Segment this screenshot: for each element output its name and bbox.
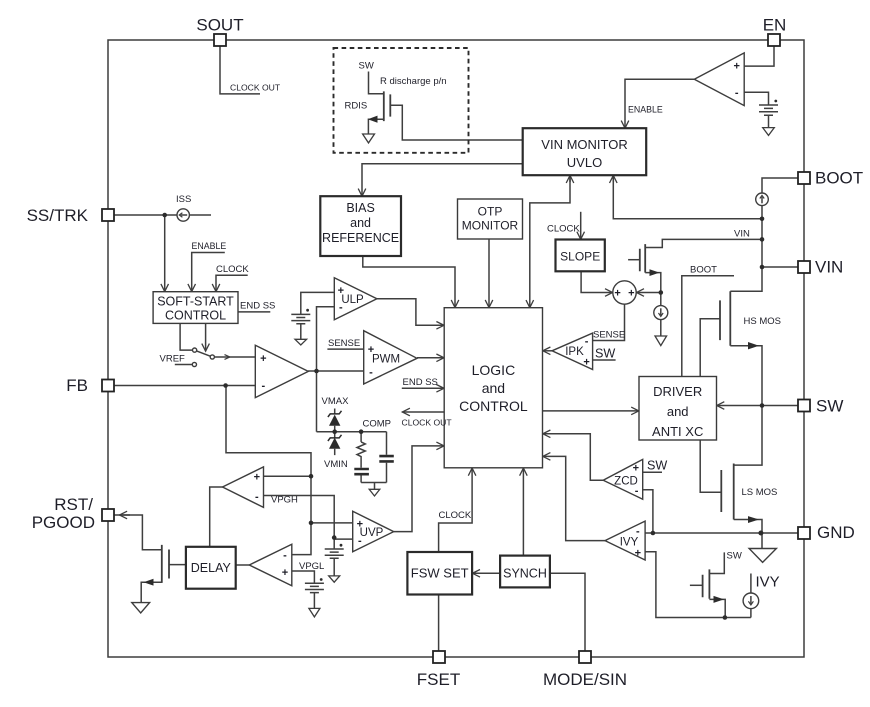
arrow into VIN MONITOR bottom right: [612, 175, 614, 182]
op-amp UVP: [353, 511, 394, 552]
node reference battery junction: [332, 535, 337, 540]
ground RST transistor arrow: [132, 603, 150, 613]
wire VPGH output to DELAY: [210, 487, 223, 547]
node VREF circle: [192, 362, 196, 366]
ground reference battery arrow: [329, 576, 340, 582]
svg-text:RDIS: RDIS: [345, 101, 368, 112]
box BIAS and REFERENCE: [320, 196, 401, 256]
svg-text:PWM: PWM: [372, 354, 400, 366]
transistor RDIS: [384, 91, 391, 121]
svg-text:+: +: [368, 344, 374, 356]
wire VIN MONITOR to VIN rail: [613, 175, 762, 219]
current source IVY: [743, 593, 759, 609]
wire VREF underline: [175, 364, 193, 366]
node LS source GND junction: [758, 531, 763, 536]
wire OTP to LOGIC top: [488, 239, 490, 308]
summing node: [613, 281, 636, 304]
svg-text:MONITOR: MONITOR: [462, 219, 519, 233]
wire VPGH plus tap: [264, 475, 312, 477]
wire LS MOS source to GND line: [734, 520, 762, 534]
arrow on error amp plus wire: [225, 355, 230, 360]
wire HS MOS gate to DRIVER: [700, 319, 720, 377]
wire FB pin to error amp minus: [114, 385, 255, 387]
wire SW node to LS MOS drain: [734, 406, 762, 466]
svg-text:VPGL: VPGL: [299, 561, 324, 572]
node switch circle B: [210, 355, 214, 359]
arrow into VIN MONITOR bottom left: [569, 175, 571, 182]
wire ZCD output to LOGIC: [543, 434, 603, 480]
wire SYNCH to FSW SET: [472, 572, 500, 574]
box DELAY: [186, 547, 236, 589]
svg-text:REFERENCE: REFERENCE: [322, 231, 399, 245]
diode VMIN zener: [328, 432, 342, 455]
svg-text:R discharge p/n: R discharge p/n: [380, 76, 447, 87]
node switch circle A: [193, 348, 197, 352]
op-amp PWM: [364, 331, 417, 384]
svg-text:+: +: [254, 472, 260, 484]
wire CLOCK OUT from LOGIC: [402, 411, 444, 413]
node summing right junction: [659, 290, 664, 295]
transistor IVY sense FET: [703, 569, 710, 598]
arrow HS MOS source: [748, 342, 759, 349]
arrow RDIS source: [368, 116, 378, 123]
node IVY sense junction: [723, 615, 728, 620]
wire MODE/SIN pin to SYNCH: [550, 573, 585, 651]
arrow LS MOS source: [748, 516, 759, 523]
node error amp output junction: [314, 369, 319, 374]
svg-text:-: -: [635, 485, 639, 497]
svg-text:+: +: [628, 288, 634, 300]
svg-text:END SS: END SS: [240, 301, 275, 312]
svg-text:+: +: [633, 463, 639, 475]
wire LOGIC to DRIVER: [543, 410, 639, 412]
wire VIN rail down to HS MOS drain: [730, 219, 762, 291]
svg-text:+: +: [635, 548, 641, 560]
wire ENABLE stub into SOFT-START: [192, 253, 225, 292]
op-amp VPGL: [249, 544, 291, 586]
wire IVY sense FET gate stub: [690, 584, 703, 586]
wire ULP plus to battery: [301, 292, 335, 314]
pin RST/PGOOD: [102, 509, 114, 521]
svg-text:GND: GND: [817, 523, 855, 542]
svg-text:-: -: [283, 550, 287, 562]
svg-text:ULP: ULP: [341, 294, 364, 306]
svg-text:ENABLE: ENABLE: [192, 241, 227, 251]
arrow toward RST pin: [120, 514, 131, 516]
node VIN rail junction: [760, 237, 765, 242]
pin VIN: [798, 261, 810, 273]
node FB junction: [223, 383, 228, 388]
wire RST pin to pass transistor: [114, 515, 162, 550]
wire EN pin to comparator plus: [744, 46, 774, 66]
transistor HS MOS: [720, 291, 730, 345]
svg-text:SS/TRK: SS/TRK: [27, 206, 89, 225]
svg-text:FSET: FSET: [417, 670, 460, 689]
wire SYNCH to LOGIC: [522, 468, 524, 555]
svg-text:-: -: [339, 302, 343, 314]
svg-text:+: +: [260, 353, 266, 365]
wire ZCD minus to GND line: [643, 490, 653, 533]
wire RDIS gate to VIN MONITOR: [390, 105, 522, 140]
box OTP MONITOR: [458, 199, 523, 239]
svg-text:VMIN: VMIN: [324, 459, 348, 470]
svg-text:IVY: IVY: [756, 574, 780, 591]
wire VIN MONITOR to LOGIC top: [530, 175, 570, 308]
pin MODE/SIN: [579, 651, 591, 663]
wire error amp output to PWM minus: [308, 370, 364, 372]
ground slope current source arrow: [655, 336, 667, 346]
wire BIAS to LOGIC top: [363, 256, 455, 308]
op-amp IPK: [552, 333, 593, 369]
wire SLOPE clock stub: [580, 212, 582, 240]
svg-text:SENSE: SENSE: [328, 338, 360, 349]
node COMP junction: [359, 429, 364, 434]
wire SS/TRK to ISS: [114, 214, 211, 216]
svg-text:CLOCK OUT: CLOCK OUT: [230, 83, 281, 93]
wire RDIS source to arrow: [368, 119, 383, 134]
svg-text:-: -: [636, 526, 640, 538]
arrow slope FET source: [650, 269, 660, 276]
svg-text:VIN MONITOR: VIN MONITOR: [541, 137, 627, 152]
svg-text:and: and: [482, 380, 505, 396]
svg-text:+: +: [583, 357, 589, 369]
svg-text:and: and: [350, 216, 371, 230]
svg-text:+: +: [282, 567, 288, 579]
svg-text:UVLO: UVLO: [567, 155, 602, 170]
svg-text:UVP: UVP: [360, 527, 384, 539]
transistor RST pass FET: [162, 545, 169, 583]
wire BIAS to VIN MONITOR: [362, 164, 523, 197]
wire FB chain down to comparators: [226, 386, 311, 555]
wire slope current source leads: [660, 293, 662, 337]
wire ZCD plus SW stub: [643, 471, 662, 473]
op-amp ULP: [334, 278, 377, 320]
op-amp IVY: [605, 521, 645, 560]
wire SOUT clock-out stub: [220, 46, 260, 94]
svg-text:-: -: [369, 367, 373, 379]
node ZCD GND junction: [651, 531, 656, 536]
wire VPGL plus to battery: [292, 571, 315, 583]
svg-text:FSW SET: FSW SET: [411, 566, 469, 581]
pin SW: [798, 400, 810, 412]
svg-text:HS MOS: HS MOS: [744, 316, 781, 327]
wire SW into RDIS drain: [369, 72, 384, 94]
svg-text:BIAS: BIAS: [346, 201, 375, 215]
svg-text:VIN: VIN: [815, 258, 843, 277]
svg-text:RST/: RST/: [54, 495, 93, 514]
wire IPK plus SW stub: [593, 359, 616, 361]
svg-text:EN: EN: [763, 16, 787, 35]
wire BOOT label to DRIVER: [682, 276, 734, 377]
svg-text:SOUT: SOUT: [196, 16, 243, 35]
svg-text:COMP: COMP: [363, 419, 392, 430]
wire IVY current source leads: [750, 574, 752, 618]
current source bootstrap: [756, 193, 769, 206]
wire FSW SET clock to LOGIC: [439, 468, 473, 552]
transistor LS MOS: [721, 464, 733, 520]
svg-text:DELAY: DELAY: [191, 561, 232, 575]
op-amp error amplifier: [255, 345, 308, 397]
svg-text:-: -: [261, 380, 265, 392]
svg-text:IPK: IPK: [565, 346, 584, 358]
battery VPGH UVP reference: [325, 544, 344, 559]
arrow IVY sense FET source: [714, 596, 725, 603]
current source ISS: [177, 209, 189, 221]
BORDER-AND-PINS: [108, 40, 804, 657]
wire SOFT-START output B arrow onto switch: [205, 323, 207, 351]
wire LS MOS gate to DRIVER: [700, 440, 721, 492]
wire slope FET gate stub: [628, 259, 640, 261]
svg-text:BOOT: BOOT: [815, 169, 863, 188]
node UVP plus junction: [309, 521, 314, 526]
wire SLOPE output to summing: [581, 271, 613, 292]
svg-text:CLOCK OUT: CLOCK OUT: [402, 418, 453, 428]
svg-text:ISS: ISS: [176, 194, 191, 205]
capacitor COMP series cap: [354, 469, 369, 474]
svg-text:SW: SW: [727, 551, 742, 562]
wire ULP minus to error amp output column: [317, 307, 335, 432]
node SW junction: [760, 403, 765, 408]
svg-text:OTP: OTP: [478, 205, 503, 219]
pin SOUT: [214, 34, 226, 46]
wire VPGL output to DELAY: [236, 564, 250, 566]
svg-text:-: -: [358, 535, 362, 547]
wire IVY sense FET drain SW stub: [709, 552, 724, 573]
ground COMP network arrow: [369, 489, 380, 496]
svg-text:CLOCK: CLOCK: [547, 224, 580, 235]
wire PWM output to LOGIC: [417, 357, 444, 359]
wire slope FET drain to VIN rail: [645, 239, 762, 247]
svg-text:+: +: [733, 61, 739, 73]
wire RST transistor source to ground: [141, 582, 162, 602]
svg-text:CONTROL: CONTROL: [165, 309, 226, 323]
svg-text:FB: FB: [66, 376, 88, 395]
pin FB: [102, 380, 114, 392]
wire SOFT-START output A to switch: [180, 323, 192, 350]
svg-text:SW: SW: [647, 459, 667, 473]
node bootstrap junction: [760, 217, 765, 222]
svg-text:LOGIC: LOGIC: [472, 362, 516, 378]
box FSW SET: [407, 552, 472, 595]
svg-text:VREF: VREF: [160, 354, 186, 365]
transistor slope sense FET: [640, 244, 645, 273]
capacitor COMP parallel cap: [379, 456, 394, 461]
wire EN comparator minus to battery: [744, 92, 768, 104]
wire FSW SET to FSET pin: [438, 595, 440, 652]
battery VPGL reference: [305, 578, 324, 593]
wire IVY plus to sense node: [645, 552, 751, 618]
wire slope FET source lead: [645, 273, 661, 293]
op-amp ZCD: [603, 459, 643, 499]
wire HS MOS source to SW node: [730, 346, 762, 406]
current source slope: [654, 306, 668, 320]
wire COMP network ground join: [361, 483, 386, 490]
wire switch blade: [196, 351, 210, 357]
wire BOOT pin to bootstrap current source: [762, 178, 798, 219]
wire DELAY to transistor gate: [169, 564, 186, 566]
svg-text:CLOCK: CLOCK: [439, 510, 472, 521]
wire slope FET source to summing: [636, 292, 660, 294]
wire VPGH minus to reference node: [264, 496, 335, 538]
wire UVP plus tap: [311, 522, 353, 524]
svg-text:and: and: [667, 404, 689, 419]
wire IPK minus SENSE from summing: [593, 304, 625, 340]
pin EN: [768, 34, 780, 46]
wire CLOCK stub into SOFT-START: [216, 275, 248, 291]
wire GND line: [645, 532, 798, 534]
battery ULP reference: [291, 309, 310, 345]
ground RDIS arrow: [363, 134, 375, 143]
svg-text:SW: SW: [595, 347, 615, 361]
svg-text:LS MOS: LS MOS: [742, 487, 778, 498]
svg-text:SW: SW: [816, 397, 843, 416]
svg-text:+: +: [614, 288, 620, 300]
wire IVY output to LOGIC: [543, 456, 605, 540]
op-amp EN comparator: [694, 53, 744, 106]
wire COMP series cap bottom lead: [360, 476, 362, 483]
svg-text:DRIVER: DRIVER: [653, 384, 702, 399]
node VIN pin junction: [760, 265, 765, 270]
pin FSET: [433, 651, 445, 663]
box DRIVER and ANTI XC: [639, 377, 717, 441]
ground GND symbol: [749, 549, 776, 563]
wire COMP parallel cap bottom lead: [386, 463, 388, 483]
wire EN comparator output ENABLE to VIN MONITOR: [625, 79, 694, 128]
svg-text:-: -: [585, 336, 589, 348]
svg-text:BOOT: BOOT: [690, 265, 717, 276]
svg-text:-: -: [255, 491, 259, 503]
pin BOOT: [798, 172, 810, 184]
wire END SS stub to LOGIC: [402, 387, 444, 389]
box SYNCH: [500, 556, 550, 588]
op-amp VPGH: [223, 467, 264, 508]
svg-text:-: -: [735, 87, 739, 99]
wire UVP minus to reference node: [334, 538, 353, 540]
wire IPK output to LOGIC: [543, 350, 552, 352]
wire ULP output to LOGIC: [377, 299, 444, 326]
node zener mid junction: [332, 429, 337, 434]
box SLOPE: [556, 240, 605, 272]
box LOGIC and CONTROL: [444, 308, 542, 468]
svg-text:SW: SW: [359, 61, 374, 72]
node VPGH plus junction: [309, 474, 314, 479]
pin SS/TRK: [102, 209, 114, 221]
ground VPGL battery arrow: [309, 608, 320, 617]
wire GND symbol lead: [761, 533, 763, 549]
svg-text:SLOPE: SLOPE: [560, 250, 600, 264]
node SS/TRK junction: [162, 213, 167, 218]
svg-text:CLOCK: CLOCK: [216, 264, 249, 275]
battery EN reference: [759, 100, 778, 136]
arrow RST transistor source: [144, 579, 154, 586]
wire switch to error amp plus: [214, 356, 255, 358]
diode VMAX zener: [328, 409, 342, 432]
box VIN MONITOR UVLO: [523, 128, 647, 175]
svg-text:PGOOD: PGOOD: [32, 513, 95, 532]
wire SENSE stub to PWM plus: [327, 348, 363, 350]
dashed box R discharge: [334, 48, 469, 153]
svg-text:SENSE: SENSE: [593, 330, 625, 341]
wire reference battery lead: [333, 538, 335, 576]
svg-text:VPGH: VPGH: [271, 495, 298, 506]
svg-text:MODE/SIN: MODE/SIN: [543, 670, 627, 689]
svg-text:ENABLE: ENABLE: [628, 105, 663, 115]
wire IVY sense FET source: [709, 599, 725, 617]
wire outer border: [108, 40, 804, 657]
svg-text:CONTROL: CONTROL: [459, 398, 528, 414]
svg-text:END SS: END SS: [403, 377, 438, 388]
svg-text:VMAX: VMAX: [322, 396, 350, 407]
wire COMP parallel cap branch: [386, 432, 388, 455]
svg-text:ANTI XC: ANTI XC: [652, 424, 703, 439]
wire SS/TRK down to SOFT-START: [164, 215, 166, 292]
svg-text:SYNCH: SYNCH: [503, 567, 547, 581]
wire COMP line through zener node: [317, 431, 387, 433]
wire UVP output to LOGIC: [394, 446, 444, 532]
wire COMP resistor branch lead: [360, 432, 362, 442]
wire VIN pin to rail: [762, 266, 798, 268]
svg-text:SOFT-START: SOFT-START: [157, 295, 234, 309]
pin GND: [798, 527, 810, 539]
box SOFT-START CONTROL: [153, 292, 238, 324]
resistor COMP zigzag: [357, 442, 365, 468]
wire END SS stub from SOFT-START: [238, 311, 270, 313]
svg-text:+: +: [338, 285, 344, 297]
wire SW pin to DRIVER: [717, 405, 798, 407]
svg-text:VIN: VIN: [734, 229, 750, 240]
svg-text:+: +: [357, 519, 363, 531]
wire VPGL battery lead: [313, 593, 315, 609]
